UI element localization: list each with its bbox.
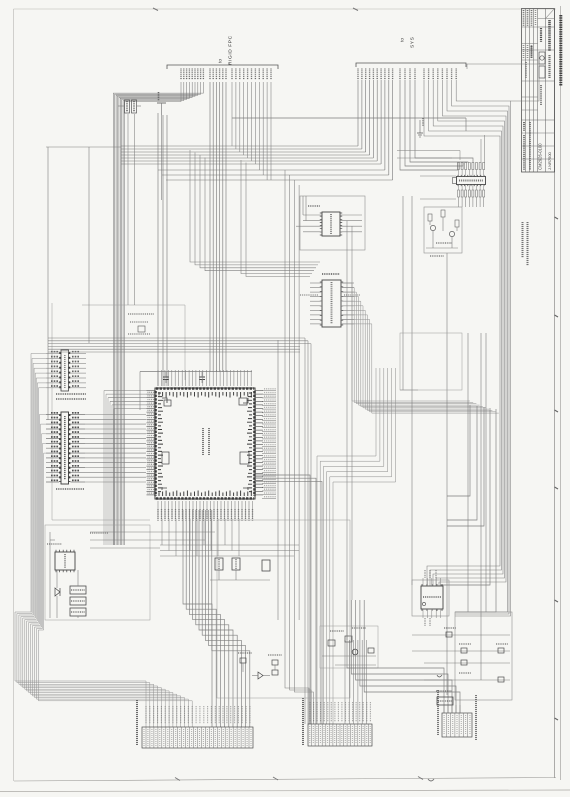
bracket SYS bbox=[356, 63, 466, 67]
wire y118 bbox=[232, 118, 466, 131]
component group under U100 bbox=[210, 558, 270, 580]
bus H2 bbox=[190, 150, 320, 277]
label to SYS bbox=[400, 37, 416, 48]
label to RIGID FPC bbox=[218, 35, 234, 65]
ground mark E3 bbox=[417, 118, 423, 137]
title block notes bbox=[523, 222, 528, 266]
bracket RIGID FPC bbox=[167, 65, 278, 69]
wires right mid bbox=[403, 196, 486, 695]
capacitor C10 bbox=[163, 372, 169, 383]
transistor circuit Q1 bbox=[424, 207, 462, 256]
wire mid verticals bbox=[158, 113, 167, 386]
resistor ladder bottom-right bbox=[412, 612, 512, 700]
pin texts U100 bottom bbox=[158, 509, 253, 521]
bus band H1 bbox=[121, 80, 393, 180]
bus J1 to U100 bbox=[85, 415, 146, 483]
labels under J1 bbox=[56, 488, 84, 490]
bus middle to CN2 bbox=[305, 338, 311, 724]
wire x278 bbox=[277, 340, 279, 620]
labels under U5 bbox=[56, 394, 86, 399]
bus H3 bbox=[48, 338, 311, 352]
box U7 region bbox=[300, 196, 365, 250]
bus U100 to CN1 bbox=[183, 510, 250, 727]
wires CN-FPC top bbox=[481, 135, 485, 163]
wires U100 bottom cont bbox=[162, 519, 239, 556]
component T1 top bbox=[157, 92, 166, 115]
wire y147 bbox=[46, 146, 121, 148]
bus y476 bbox=[255, 475, 322, 724]
box center bottom bbox=[217, 520, 350, 698]
wire x48 bbox=[47, 147, 49, 420]
bus U100 top pins bbox=[158, 370, 251, 386]
wires cluster right bbox=[90, 532, 215, 548]
svg-text:J.NR7500: J.NR7500 bbox=[547, 151, 552, 170]
label CN2 bbox=[302, 698, 304, 745]
IC U7 8-pin bbox=[303, 206, 362, 236]
bus RIGID-B to U100 bbox=[210, 82, 226, 372]
bus U5 to U100 bbox=[104, 391, 147, 546]
box left region bbox=[52, 303, 185, 520]
connector CN-FPC bbox=[453, 163, 486, 198]
resistor pack top-left bbox=[118, 100, 141, 113]
capacitor C11 bbox=[199, 372, 205, 383]
pin labels RIGID FPC bbox=[181, 69, 271, 81]
wires CN2 top bbox=[345, 640, 367, 724]
wire y390 bbox=[400, 389, 418, 391]
wires U7 down bbox=[347, 221, 352, 640]
wire x89 bbox=[88, 147, 90, 343]
label CN1 bbox=[136, 700, 138, 745]
svg-text:to: to bbox=[218, 59, 224, 63]
bus x285-300 bbox=[285, 170, 313, 724]
cluster mid-left bbox=[128, 314, 154, 334]
wires CN-FPC bottom bbox=[420, 197, 484, 207]
wires CN3 top bbox=[444, 705, 460, 713]
svg-text:SYS: SYS bbox=[410, 37, 416, 48]
bus SYS-right to right bundle bbox=[424, 64, 539, 616]
bus left to CN1 bbox=[15, 354, 192, 728]
connector CN1 bbox=[142, 727, 253, 748]
bus H4 drop bbox=[440, 405, 496, 612]
wire comp drops bbox=[128, 114, 135, 305]
pin labels CN1 bbox=[146, 706, 250, 724]
bus to CN3 bbox=[347, 600, 460, 713]
bus U100 bottom pins bbox=[158, 501, 253, 519]
connector CN102 bbox=[442, 713, 472, 737]
svg-text:to: to bbox=[400, 38, 406, 42]
border tick marks bbox=[153, 8, 558, 781]
circuit cluster Q2 bbox=[320, 626, 378, 668]
pin labels U100 left bbox=[147, 391, 156, 495]
bus Z-jog to CN2 bbox=[317, 368, 396, 724]
bus SYS-mid to CN-FPC bbox=[400, 80, 473, 170]
wires U100 right stubs bbox=[262, 391, 276, 499]
label CN102 partno bbox=[475, 695, 477, 740]
pin texts U100 right bbox=[264, 389, 276, 497]
wire y150 ext bbox=[397, 151, 460, 177]
rail above U100 bbox=[140, 372, 252, 411]
title block bbox=[522, 9, 555, 173]
IC U9 8-pin bbox=[412, 570, 449, 626]
connector J1 30-pin bbox=[46, 412, 85, 484]
connector J1 30-pin bbox=[46, 412, 85, 484]
svg-text:CM2926-0100: CM2926-0100 bbox=[538, 143, 543, 170]
resistor pack above CN102 bbox=[436, 691, 453, 705]
box right tall bbox=[400, 333, 462, 390]
bus H5 bbox=[160, 545, 299, 556]
pin labels U100 right bbox=[255, 391, 263, 495]
page edge imprint text bbox=[559, 15, 562, 86]
connector CN2 bbox=[308, 724, 372, 746]
wires U7 left bbox=[296, 196, 306, 226]
IC U8 16-pin bbox=[300, 274, 360, 327]
circuit cluster X1 bbox=[45, 525, 150, 620]
svg-text:RIGID FPC: RIGID FPC bbox=[228, 35, 234, 65]
circuit cluster D1 bbox=[238, 653, 282, 679]
bus H4 bbox=[341, 283, 499, 413]
IC U5 16-pin DIP bbox=[46, 350, 86, 391]
pin labels SYS bbox=[358, 69, 456, 81]
pin labels CN2 bbox=[310, 702, 370, 722]
IC U100 QFP bbox=[155, 388, 255, 499]
label CN102 bbox=[437, 690, 439, 735]
bus RIGID-A to left bundle bbox=[113, 82, 203, 545]
